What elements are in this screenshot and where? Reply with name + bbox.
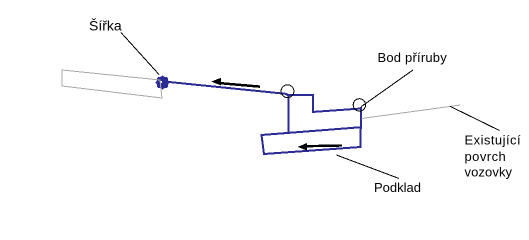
svg-text:Existující: Existující [465,133,522,148]
gray existing surface line to the right [362,105,461,119]
navy segment rising to circle 2 [312,109,361,113]
svg-text:Bod příruby: Bod příruby [378,50,448,65]
navy surface line from star to circle 1 [164,82,288,95]
navy vertical from circle 2 down to base corner [360,107,362,128]
svg-text:Podklad: Podklad [374,180,421,195]
svg-text:povrch: povrch [465,149,507,164]
leader line from Sirka label to star [121,33,159,75]
leader line from Bod priruby label to circle 2 [361,70,413,107]
base layer quad (Podklad) [262,127,361,154]
navy vertical from circle 1 down to base [287,95,289,134]
label Existujici povrch vozovky [465,133,522,180]
point circle 2 (flange point) [353,99,365,111]
svg-text:vozovky: vozovky [465,165,513,180]
direction arrow upper (pointing left) [211,78,260,88]
navy vertical step down [312,94,314,112]
leader line to Existujici povrch vozovky label [450,106,500,130]
direction arrow lower (pointing left) [298,143,342,151]
navy horizontal segment right of circle 1 [287,94,314,96]
width marker star [155,75,170,90]
svg-text:Šířka: Šířka [89,18,122,34]
point circle 1 [281,85,294,98]
existing pavement outline (gray quad) [62,70,162,98]
leader line to Podklad label [337,155,400,179]
